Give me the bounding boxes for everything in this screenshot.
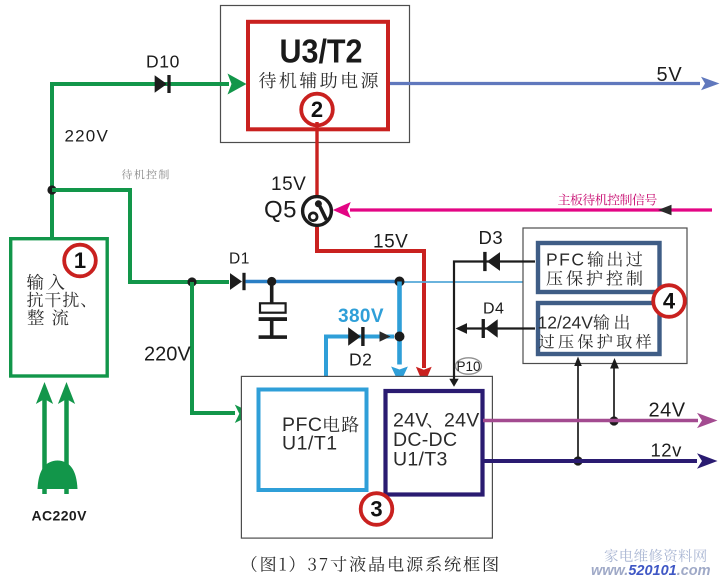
wire 220V vertical feed [50, 82, 54, 238]
wire 24V output [483, 419, 698, 423]
block PFC overvoltage protection control [538, 243, 660, 292]
svg-text:www.520101.com: www.520101.com [591, 563, 711, 578]
block main converter outer frame [241, 376, 492, 538]
wire AC line input left [42, 398, 47, 494]
arrow direction marker on control signal [658, 205, 672, 215]
block PFC circuit U1/T1 [259, 390, 367, 491]
caption （图1）37寸液晶电源系统框图 [252, 556, 498, 572]
block U3/T2 standby aux supply box [248, 22, 388, 130]
block protection outer frame [523, 228, 687, 364]
svg-text:D3: D3 [479, 227, 504, 248]
diode D10 [155, 75, 167, 93]
label 抗干扰、 [27, 292, 85, 308]
svg-text:D4: D4 [483, 301, 504, 318]
wire PFC output 380V [326, 337, 394, 389]
svg-text:380V: 380V [338, 306, 384, 327]
arrow D2 into bus [380, 331, 391, 341]
svg-text:D2: D2 [349, 350, 372, 370]
wire D4 sample return [466, 327, 535, 329]
svg-text:220V: 220V [65, 127, 110, 146]
marker circle 1 [64, 245, 96, 277]
wire standby control branch [52, 190, 229, 282]
marker circle 2 [301, 94, 333, 126]
svg-text:D1: D1 [229, 251, 250, 268]
diode D2 [348, 327, 361, 346]
wire 15V from standby supply to Q5 [315, 122, 318, 196]
svg-text:4: 4 [663, 289, 676, 314]
node junction 380V bus top [395, 277, 405, 287]
label 过压保护取样 [539, 334, 651, 349]
wire D3 feed to protection [454, 262, 535, 382]
wire 12V sample to protection [577, 363, 579, 461]
block 12/24V overvoltage sampling [538, 303, 660, 354]
diode D1 [230, 273, 242, 290]
label 压保护控制 [547, 270, 643, 286]
wire 15V switched to DC-DC [317, 227, 424, 368]
svg-text:12/24V: 12/24V [538, 313, 594, 333]
svg-text:3: 3 [370, 497, 382, 522]
svg-text:15V: 15V [373, 232, 408, 253]
diode D3 [487, 252, 500, 271]
wire AC line input right [64, 398, 69, 494]
svg-text:15V: 15V [271, 174, 306, 195]
svg-text:P10: P10 [456, 359, 480, 374]
label 输入 [27, 274, 65, 290]
transistor Q5 [303, 197, 332, 226]
svg-text:U1/T1: U1/T1 [282, 433, 338, 455]
label 待机辅助电源 [259, 72, 378, 89]
wire 5V output [390, 82, 700, 85]
watermark 家电维修资料网 [605, 549, 707, 562]
node junction 24V sample [609, 416, 618, 425]
capacitor C1 lead [270, 283, 274, 303]
wire 24V sample to protection [613, 365, 615, 421]
svg-text:D10: D10 [146, 52, 180, 72]
wire 300V bus after D1 [246, 280, 400, 284]
svg-text:PFC: PFC [546, 250, 586, 270]
node junction 220V feed [47, 185, 56, 194]
svg-text:AC220V: AC220V [32, 508, 88, 524]
node junction 12V sample [573, 456, 582, 465]
AC plug symbol [38, 461, 78, 490]
wire PFC overvoltage sense [399, 281, 527, 283]
block 24V DC-DC U1/T3 [386, 391, 483, 495]
svg-text:5V: 5V [657, 64, 683, 86]
marker circle 4 [653, 285, 685, 317]
capacitor C1 [260, 303, 286, 312]
svg-text:Q5: Q5 [264, 197, 297, 224]
connector P10 [456, 358, 482, 374]
node junction rectifier output [187, 277, 196, 286]
node junction D2 output [395, 332, 405, 342]
svg-text:U3/T2: U3/T2 [280, 33, 363, 70]
wire 380V bus to DC-DC [397, 282, 402, 365]
svg-text:12v: 12v [651, 440, 683, 461]
node junction capacitor tap [267, 277, 276, 286]
svg-text:24V: 24V [649, 400, 686, 422]
diode D4 [485, 319, 497, 338]
wire 220V to PFC block [192, 282, 235, 413]
svg-text:1: 1 [74, 248, 86, 273]
svg-text:2: 2 [311, 97, 323, 122]
label 待机控制 [122, 169, 169, 179]
block input anti-interference rectifier [11, 239, 108, 376]
svg-text:220V: 220V [144, 344, 191, 366]
marker circle 3 [361, 493, 393, 525]
label 整流 [28, 309, 69, 325]
svg-text:U1/T3: U1/T3 [393, 449, 448, 471]
block U3/T2 outer frame [221, 6, 410, 143]
wire 12V output [483, 459, 697, 463]
wire main-board standby control signal [350, 208, 712, 211]
label 主板待机控制信号 [558, 194, 657, 206]
wire 220V horizontal to D10 [50, 82, 229, 86]
